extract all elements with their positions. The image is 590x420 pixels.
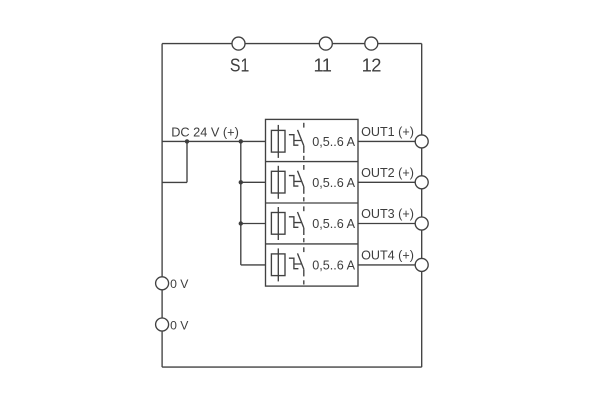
- channel 1 symbols: [271, 123, 303, 160]
- wire: jog horizontal back to left rail: [162, 181, 187, 183]
- breaker module outline (4 channel cells): [266, 119, 359, 286]
- contact pivot stem 3: [303, 228, 305, 235]
- terminal S1: [232, 37, 245, 50]
- svg-text:0 V: 0 V: [170, 318, 189, 332]
- svg-text:DC 24 V (+): DC 24 V (+): [171, 124, 239, 139]
- terminal OUT1: [415, 135, 428, 148]
- svg-text:0,5..6 A: 0,5..6 A: [312, 217, 355, 231]
- node D junction dot (channel 3 tap): [239, 221, 243, 225]
- channel 2 symbols: [271, 165, 303, 201]
- svg-text:OUT4 (+): OUT4 (+): [361, 249, 414, 263]
- svg-text:OUT3 (+): OUT3 (+): [361, 207, 414, 221]
- actuator dash below 4: [303, 280, 305, 284]
- actuator dash below 2: [303, 197, 305, 201]
- breaker contact blade 1: [298, 130, 304, 146]
- terminal 12: [365, 37, 378, 50]
- svg-text:0,5..6 A: 0,5..6 A: [312, 258, 355, 272]
- svg-text:11: 11: [314, 55, 332, 76]
- thermal release hook 4: [289, 258, 301, 269]
- svg-text:S1: S1: [230, 55, 249, 76]
- thermal release hook 3: [289, 217, 301, 228]
- terminal 0V upper: [156, 277, 169, 290]
- breaker contact blade 4: [298, 253, 304, 269]
- node A junction dot: [185, 139, 189, 143]
- actuator dash above 2: [303, 165, 305, 170]
- node B junction dot (bus top): [239, 139, 243, 143]
- terminal OUT3: [415, 217, 428, 230]
- breaker contact blade 2: [298, 171, 304, 187]
- thermal release hook 2: [289, 176, 301, 187]
- wire: distribution bus vertical: [240, 141, 242, 265]
- wire: outer loop top: [162, 43, 422, 45]
- wire: outer loop right: [421, 44, 423, 368]
- actuator dash above 3: [303, 206, 305, 211]
- contact pivot stem 4: [303, 269, 305, 276]
- actuator dash below 1: [303, 156, 305, 160]
- wire: OUT2 to terminal: [358, 181, 422, 183]
- fuse F4: [271, 254, 285, 276]
- terminal 0V lower: [156, 318, 169, 331]
- svg-text:0,5..6 A: 0,5..6 A: [312, 176, 355, 190]
- svg-text:OUT2 (+): OUT2 (+): [361, 166, 414, 180]
- svg-text:OUT1 (+): OUT1 (+): [361, 125, 414, 139]
- wire: OUT1 to terminal: [358, 140, 422, 142]
- wire: outer loop left: [161, 44, 163, 368]
- fuse F3: [271, 213, 285, 235]
- svg-text:12: 12: [362, 55, 382, 76]
- fuse F2: [271, 171, 285, 193]
- node C junction dot (channel 2 tap): [239, 180, 243, 184]
- wire: stub to channel 4: [241, 264, 266, 266]
- wire: DC 24 V feed to channel 1: [162, 140, 265, 142]
- actuator dash above 4: [303, 247, 305, 252]
- wire: jog vertical from node A: [186, 141, 188, 182]
- terminal OUT4: [415, 258, 428, 271]
- wire: OUT4 to terminal: [358, 264, 422, 266]
- thermal release hook 1: [289, 135, 301, 146]
- channel 3 symbols: [271, 206, 303, 242]
- actuator dash below 3: [303, 238, 305, 242]
- svg-text:0 V: 0 V: [170, 277, 189, 291]
- wire: stub to channel 3: [241, 223, 266, 225]
- wire: outer loop bottom: [162, 366, 422, 368]
- breaker contact blade 3: [298, 212, 304, 228]
- channel 4 symbols: [271, 247, 303, 284]
- contact pivot stem 2: [303, 187, 305, 194]
- terminal 11: [319, 37, 332, 50]
- contact pivot stem 1: [303, 146, 305, 153]
- fuse F1: [271, 130, 285, 152]
- svg-text:0,5..6 A: 0,5..6 A: [312, 135, 355, 149]
- terminal OUT2: [415, 176, 428, 189]
- actuator dash above 1: [303, 123, 305, 128]
- wire: stub to channel 2: [241, 181, 266, 183]
- wire: OUT3 to terminal: [358, 223, 422, 225]
